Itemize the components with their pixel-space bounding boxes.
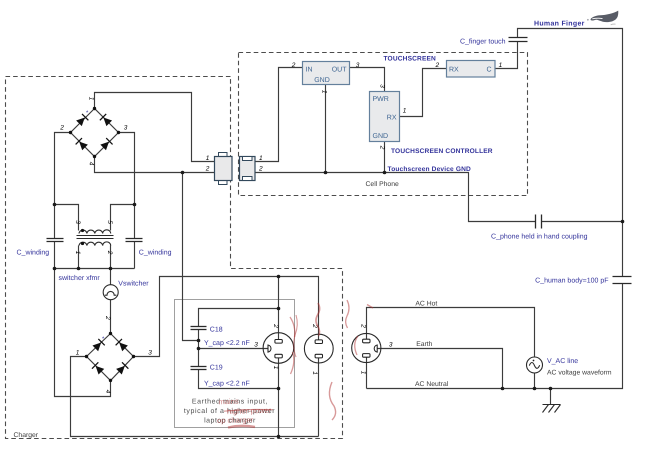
svg-text:op charger: op charger	[217, 415, 254, 425]
wire: touchscreen GND pin down	[325, 85, 327, 173]
node: gnd rail junctions	[181, 171, 185, 175]
diode B1 top-left	[76, 114, 89, 127]
svg-text:IN: IN	[306, 67, 313, 74]
wire: xfmr pin5	[111, 205, 135, 231]
svg-text:C: C	[486, 66, 491, 73]
svg-text:C18: C18	[210, 326, 223, 333]
svg-text:1: 1	[74, 251, 81, 255]
transformer T1 polarity dots	[81, 229, 84, 232]
svg-text:Human Finger: Human Finger	[534, 19, 585, 27]
svg-text:GND: GND	[373, 133, 389, 140]
svg-text:V_AC line: V_AC line	[547, 357, 578, 365]
transformer T1 switcher xfmr primary coil	[79, 230, 111, 234]
svg-text:5: 5	[106, 220, 113, 224]
red annotation near box edge	[294, 315, 298, 357]
svg-text:Y_cap <2.2 nF: Y_cap <2.2 nF	[204, 381, 250, 388]
svg-text:2: 2	[291, 62, 296, 69]
svg-text:1: 1	[88, 97, 95, 101]
red annotation tick at AC Hot corner	[367, 305, 373, 309]
svg-text:mains: mains	[218, 397, 239, 407]
svg-text:4: 4	[104, 390, 111, 394]
svg-text:TOUCHSCREEN: TOUCHSCREEN	[384, 56, 437, 63]
wire: ground rail to C_phone cap	[256, 173, 536, 222]
wire: AC Neutral rail	[367, 284, 623, 389]
wire: xfmr pin3	[55, 205, 79, 231]
wire: bridge1 pin1 to connector1 pin1	[95, 93, 215, 162]
svg-text:2: 2	[205, 165, 210, 172]
block U2 touchscreen controller PWR/RX/GND	[370, 92, 400, 142]
svg-text:AC voltage waveform: AC voltage waveform	[547, 369, 612, 376]
capacitor C_phone held in hand	[535, 215, 537, 229]
diode B2 bottom-right	[116, 362, 129, 375]
red strike higher-power	[224, 409, 273, 411]
wire: Vswitcher to bridge2 pin2	[110, 300, 112, 334]
wire: ground stub	[550, 389, 552, 405]
wire: bridge1 pin3 to right rail and C_winding top	[119, 133, 135, 239]
node: left rail	[53, 203, 57, 207]
wire: bridge1 pin4 to connector1 pin2	[95, 157, 215, 173]
svg-text:2: 2	[59, 124, 64, 131]
wire: C19 bottom to plug1 bottom	[199, 370, 279, 389]
wire: C_phone right plate to right rail	[542, 221, 623, 223]
source V_AC line	[527, 357, 543, 373]
svg-text:C_phone held in hand coupling: C_phone held in hand coupling	[491, 233, 588, 241]
svg-text:2: 2	[360, 323, 367, 328]
bridge rectifier B1 diamond	[71, 109, 119, 157]
cell phone dashed boundary	[239, 53, 528, 196]
wire: plug1 top pin	[278, 277, 280, 340]
svg-text:RX: RX	[387, 115, 397, 122]
ground earth symbol	[543, 405, 561, 413]
wire: plug3 bottom pin	[366, 357, 368, 388]
svg-text:Touchscreen Device GND: Touchscreen Device GND	[388, 166, 472, 173]
wire: branch down to Y-cap junction	[183, 173, 199, 341]
svg-text:1: 1	[499, 62, 503, 69]
capacitor C_human body	[613, 276, 632, 278]
svg-text:3: 3	[254, 342, 258, 349]
svg-text:2: 2	[258, 165, 263, 172]
red annotation arc plug3 left	[355, 336, 358, 355]
svg-text:1: 1	[311, 371, 318, 375]
svg-text:C_winding: C_winding	[139, 248, 172, 256]
svg-text:4: 4	[88, 162, 95, 166]
svg-text:Y_cap <2.2 nF: Y_cap <2.2 nF	[204, 340, 250, 347]
svg-text:1: 1	[259, 155, 263, 162]
svg-text:1: 1	[403, 108, 407, 115]
svg-text:2: 2	[104, 315, 111, 320]
wire: controller GND pin down	[384, 142, 386, 173]
source Vswitcher	[103, 285, 118, 300]
wire: C_finger bottom to RX/C pin C	[495, 42, 518, 69]
human finger hand icon	[591, 11, 619, 22]
transformer T1 secondary coil	[79, 242, 111, 246]
capacitor C_winding left	[47, 238, 64, 240]
bridge rectifier B2 diamond	[87, 334, 134, 381]
wire: RX/C pin2 to controller RX pin1	[400, 69, 447, 117]
wire: right C_winding bottom lead	[134, 242, 136, 269]
wire: bottom xfmr rail	[55, 268, 135, 270]
mains input inner box	[175, 300, 295, 428]
svg-text:Cell Phone: Cell Phone	[366, 181, 399, 188]
svg-text:RX: RX	[449, 66, 459, 73]
capacitor C_winding right	[126, 238, 143, 240]
red annotation scribble below plug1	[329, 382, 335, 420]
svg-text:3: 3	[356, 62, 360, 69]
red annotation arcs plug1 right	[290, 317, 295, 374]
diode B1 bottom-right	[100, 138, 113, 151]
svg-text:switcher xfmr: switcher xfmr	[59, 274, 101, 282]
wire: C18 bottom to earth junction and plug1 pin3	[199, 330, 268, 349]
svg-text:Vswitcher: Vswitcher	[118, 280, 149, 288]
wire: C19 top lead	[198, 349, 200, 367]
charger dashed boundary	[6, 77, 343, 439]
plug P1 earthed appliance inlet	[263, 333, 294, 364]
diode B2 bottom-left	[92, 362, 105, 375]
wire: bridge2 pin4 to left rail	[55, 269, 111, 397]
svg-text:3: 3	[389, 342, 393, 349]
svg-text:2: 2	[434, 62, 439, 69]
wire: bridge2 pin3 up to plug2 top pin	[134, 277, 319, 357]
svg-text:AC Neutral: AC Neutral	[415, 381, 449, 388]
wire: xfmr pin1 lead	[78, 246, 80, 269]
capacitor C18	[191, 326, 207, 328]
svg-text:TOUCHSCREEN CONTROLLER: TOUCHSCREEN CONTROLLER	[391, 148, 493, 155]
wire: plug2 bottom pin	[318, 358, 320, 437]
svg-text:C_winding: C_winding	[17, 248, 50, 256]
wire: left C_winding bottom lead	[54, 242, 56, 269]
svg-text:AC Hot: AC Hot	[415, 300, 437, 307]
capacitor C19	[191, 366, 207, 368]
wire: OUT pin3 to PWR pin	[350, 68, 385, 92]
svg-text:1: 1	[206, 155, 210, 162]
svg-text:3: 3	[74, 220, 81, 224]
svg-text:2: 2	[272, 323, 279, 328]
diode B2 top-left	[92, 339, 105, 352]
transformer T1 core	[77, 235, 114, 237]
wire: C18 top wire	[199, 309, 279, 327]
svg-text:1: 1	[76, 349, 80, 356]
svg-text:2: 2	[106, 250, 113, 255]
block U1 touchscreen IN/OUT/GND	[303, 62, 350, 85]
diode B1 top-right	[100, 114, 113, 127]
wire: plug3 pin3 Earth	[377, 349, 502, 389]
wire: plug3 top pin and AC Hot	[367, 308, 535, 357]
svg-text:Earth: Earth	[416, 341, 432, 348]
svg-text:3: 3	[124, 124, 128, 131]
capacitor C_finger touch	[509, 37, 528, 39]
node: right rail / C_phone	[621, 220, 625, 224]
block U3 RX/C	[447, 61, 496, 78]
connector J1 charger side	[219, 153, 228, 157]
node B1 vertices	[69, 107, 120, 158]
svg-text:1: 1	[272, 366, 279, 370]
diode B2 top-right	[116, 339, 129, 352]
svg-text:Charger: Charger	[14, 432, 39, 439]
wire: xfmr pin2 to Vswitcher	[110, 246, 112, 285]
svg-text:C19: C19	[210, 365, 223, 372]
plug P2 mating plug	[304, 334, 333, 363]
svg-text:C_human body=100 pF: C_human body=100 pF	[535, 276, 608, 284]
wire: IN pin2 to connector2 pin1	[256, 68, 303, 162]
red annotation squiggle plug2 wire	[316, 303, 320, 336]
svg-text:GND: GND	[314, 77, 330, 84]
red annotation squiggle x347	[346, 300, 349, 328]
diode B1 bottom-left	[76, 138, 89, 151]
node: mains section	[277, 275, 281, 279]
plug P3 AC wall outlet	[352, 333, 381, 362]
connector J2 phone side	[240, 157, 256, 181]
wire: bridge2 pin1 to bottom rail	[71, 357, 319, 437]
wire: plug1 bottom pin	[278, 358, 280, 437]
node B2 vertices	[85, 332, 135, 382]
svg-text:PWR: PWR	[373, 96, 389, 103]
svg-text:C_finger touch: C_finger touch	[460, 37, 506, 45]
wire: V_AC bottom lead	[534, 373, 536, 389]
svg-text:OUT: OUT	[332, 67, 348, 74]
svg-text:2: 2	[379, 145, 386, 150]
svg-text:3: 3	[148, 349, 152, 356]
svg-text:1: 1	[321, 90, 328, 94]
svg-text:1: 1	[360, 371, 367, 375]
node: AC neutral junctions	[501, 387, 505, 391]
svg-text:3: 3	[379, 84, 386, 88]
wire: finger to C_finger and right rail down to C_human top	[518, 29, 623, 277]
wire: bridge1 pin2 to left rail and C_winding top	[55, 133, 71, 239]
